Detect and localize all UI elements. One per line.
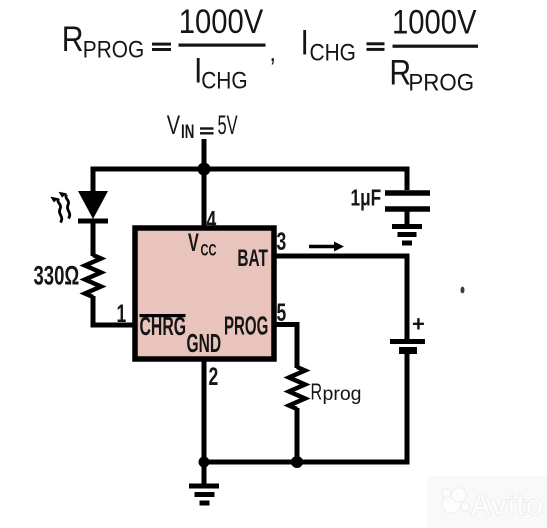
svg-text:CHG: CHG (201, 67, 247, 94)
svg-text:PROG: PROG (224, 313, 268, 341)
LED D1 (78, 191, 108, 219)
LED light arrows (58, 195, 70, 223)
wire cap branch (405, 169, 408, 190)
ground (main) (189, 486, 219, 503)
svg-text:V: V (167, 110, 180, 141)
wire LED drop (91, 167, 96, 193)
svg-text:CHRG: CHRG (140, 313, 187, 341)
svg-text:5V: 5V (218, 110, 238, 140)
battery B1 (390, 339, 425, 344)
watermark avito (427, 476, 547, 528)
svg-text:,: , (270, 37, 276, 67)
wire VIN rail (91, 167, 408, 172)
node VIN label (167, 110, 238, 143)
svg-text:PROG: PROG (408, 69, 474, 96)
capacitor C1 (385, 190, 430, 196)
svg-text:2: 2 (209, 362, 219, 391)
svg-text:330Ω: 330Ω (34, 260, 80, 290)
wire BAT pin 3 (274, 254, 407, 259)
wire battery to bottom rail (204, 354, 407, 462)
svg-text:Avito: Avito (470, 489, 544, 522)
svg-text:+: + (412, 312, 425, 337)
formula ICHG = 1000V/RPROG (301, 2, 479, 95)
formula RPROG = 1000V/ICHG (62, 2, 276, 94)
svg-text:1000V: 1000V (392, 2, 477, 41)
resistor 330R (85, 255, 101, 297)
svg-text:5: 5 (277, 298, 287, 327)
svg-text:CHG: CHG (310, 39, 356, 66)
svg-text:IN: IN (181, 122, 194, 143)
ground (cap) (392, 227, 422, 244)
wire cap to ground (405, 209, 410, 224)
Rprog value label (311, 380, 362, 405)
svg-text:V: V (188, 230, 199, 257)
wire PROG pin 5 (274, 325, 297, 369)
wire resistor to pin1 (93, 296, 136, 325)
svg-text:1μF: 1μF (351, 186, 382, 211)
wire ground stub (202, 462, 207, 484)
node VIN junction (198, 163, 211, 176)
node Rprog junction (291, 456, 303, 468)
svg-text:CC: CC (201, 241, 217, 260)
wire GND pin 2 (202, 359, 207, 462)
svg-text:PROG: PROG (83, 36, 144, 63)
svg-text:GND: GND (187, 330, 222, 358)
current arrow (309, 245, 336, 249)
IC label VCC (188, 230, 216, 261)
svg-text:prog: prog (323, 383, 362, 405)
IC U1 body (135, 228, 274, 359)
svg-text:3: 3 (277, 227, 287, 256)
resistor Rprog (289, 367, 305, 409)
svg-text:R: R (311, 380, 323, 405)
wire battery branch (405, 254, 410, 340)
svg-text:I: I (301, 22, 309, 62)
wire VCC pin 4 (202, 169, 207, 228)
svg-text:BAT: BAT (237, 244, 268, 272)
svg-text:R: R (62, 19, 84, 59)
stray ink speck (461, 287, 465, 294)
wire Rprog to bottom rail (295, 408, 300, 462)
wire LED to resistor (91, 221, 96, 256)
svg-text:1000V: 1000V (179, 2, 264, 41)
wire VIN stub (202, 139, 207, 169)
node bottom-left junction (199, 457, 210, 468)
svg-text:1: 1 (117, 299, 127, 328)
